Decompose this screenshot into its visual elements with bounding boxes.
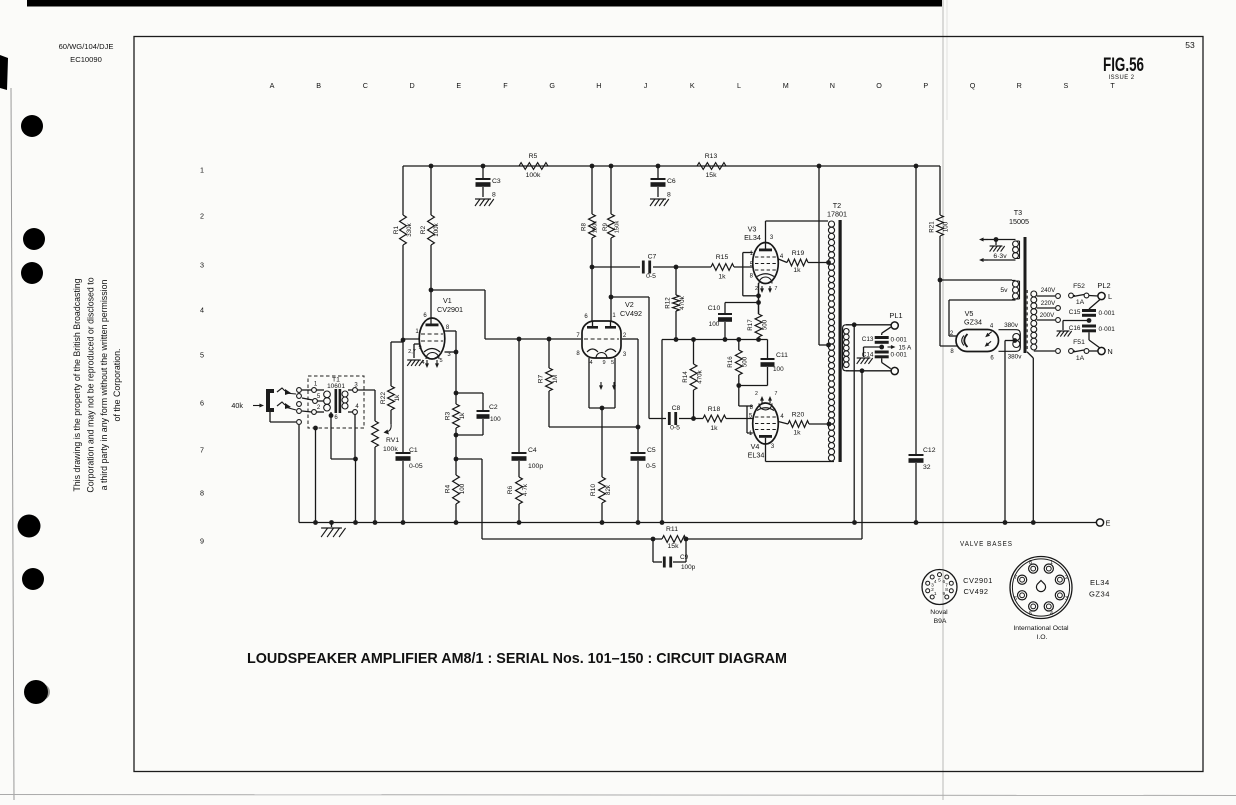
svg-text:C1: C1 [409, 447, 418, 454]
svg-text:C: C [363, 81, 368, 90]
svg-text:R16: R16 [727, 356, 734, 368]
svg-text:32: 32 [923, 464, 931, 471]
svg-text:53: 53 [1185, 40, 1195, 50]
capacitor C3 [481, 164, 486, 169]
resistor R2 [429, 164, 434, 169]
wire V2 cathode bus [549, 426, 638, 428]
svg-text:4: 4 [200, 306, 204, 315]
svg-text:O: O [876, 81, 882, 90]
svg-text:C4: C4 [528, 447, 537, 454]
V3 bracket [743, 252, 753, 254]
svg-text:7: 7 [775, 286, 778, 292]
svg-text:B9A: B9A [934, 618, 947, 625]
svg-text:R21: R21 [929, 221, 936, 233]
svg-text:PL2: PL2 [1097, 281, 1110, 290]
T3 screen earth wire [1027, 352, 1033, 358]
valve V1 [419, 318, 445, 359]
T3 HT centre tap [1012, 338, 1017, 343]
valve V3 [753, 243, 779, 284]
svg-text:200V: 200V [1040, 312, 1055, 319]
T1 pin 1 [312, 388, 317, 393]
resistor R6 [518, 461, 520, 477]
T1 pin 4 [353, 410, 358, 415]
valve V5 [956, 330, 999, 352]
node feedback junction [455, 435, 457, 459]
resistor R20 [778, 422, 788, 425]
svg-text:9: 9 [200, 537, 204, 546]
svg-text:CV2901: CV2901 [437, 305, 463, 314]
svg-text:R13: R13 [705, 153, 718, 160]
svg-text:EC10090: EC10090 [70, 55, 102, 64]
svg-text:150k: 150k [593, 221, 599, 234]
svg-text:C16: C16 [1069, 325, 1081, 332]
svg-text:E: E [456, 81, 461, 90]
svg-text:B: B [316, 81, 321, 90]
feedback line [482, 538, 653, 540]
wire R15 to V3 grid [734, 266, 753, 268]
svg-text:100: 100 [490, 416, 501, 423]
svg-text:470k: 470k [697, 369, 704, 383]
15A arrow label [888, 346, 893, 348]
T1 core [335, 389, 338, 413]
svg-text:240V: 240V [1041, 287, 1056, 294]
svg-text:Corporation and may not be rep: Corporation and may not be reproduced or… [85, 277, 95, 492]
grid bias bus [662, 339, 768, 341]
PL1 earth [864, 346, 882, 348]
svg-text:5: 5 [938, 577, 941, 583]
svg-text:LOUDSPEAKER AMPLIFIER AM8/1: LOUDSPEAKER AMPLIFIER AM8/1 : SERIAL Nos… [247, 651, 787, 667]
svg-text:330k: 330k [406, 222, 413, 236]
scan left edge mark [0, 55, 8, 90]
V4 cathode bracket [746, 406, 748, 433]
V3 heater arrows [761, 286, 763, 290]
svg-text:8: 8 [492, 192, 496, 199]
svg-text:J: J [644, 81, 648, 90]
fuse F52 [1071, 295, 1075, 297]
V2 anode right [605, 326, 616, 329]
V5 diode arrows [987, 332, 991, 336]
svg-text:100p: 100p [681, 564, 696, 571]
wire V2 pin2 down [622, 338, 638, 340]
svg-text:1k: 1k [793, 267, 801, 274]
wire V1 anode to V2 grid [429, 288, 434, 293]
svg-text:L: L [1108, 292, 1112, 301]
resistor R17 [756, 337, 761, 342]
svg-text:6: 6 [200, 399, 204, 408]
node C13 C14 junction [879, 345, 884, 350]
svg-text:100: 100 [943, 221, 950, 232]
node V4 cathode net [736, 383, 741, 388]
RV1 wiper arrow [386, 424, 391, 432]
svg-text:0-5: 0-5 [670, 425, 680, 432]
resistor R11 [662, 536, 686, 543]
T1 primary winding [324, 391, 331, 398]
T1 pin 6 [329, 413, 334, 418]
svg-text:1k: 1k [793, 430, 801, 437]
svg-text:M: M [783, 81, 789, 90]
T1 pin 2 [312, 410, 317, 415]
T1 pin 3 [353, 388, 358, 393]
svg-text:K: K [690, 81, 695, 90]
resistor R10 [599, 477, 606, 503]
svg-text:100k: 100k [433, 222, 440, 236]
svg-text:5: 5 [439, 358, 442, 364]
svg-text:3: 3 [200, 261, 204, 270]
svg-text:6: 6 [1014, 596, 1017, 602]
svg-text:R2: R2 [420, 225, 427, 234]
svg-text:C11: C11 [776, 352, 788, 359]
svg-text:C7: C7 [648, 254, 657, 261]
V4 heater arrows [761, 399, 763, 403]
svg-text:4: 4 [421, 360, 424, 366]
svg-text:GZ34: GZ34 [1089, 590, 1110, 599]
6.3V wires and arrows [984, 239, 1016, 241]
capacitor C6 [656, 164, 661, 169]
wire C8 to R18 [679, 418, 703, 420]
capacitor C10 [723, 337, 728, 342]
V2 anode left [587, 326, 598, 329]
page left edge line [11, 88, 14, 800]
svg-text:15 A: 15 A [899, 345, 913, 352]
svg-text:V2: V2 [625, 300, 634, 309]
valve base International Octal [1010, 557, 1072, 619]
svg-text:6·3v: 6·3v [993, 253, 1007, 260]
jack sleeve wire [269, 412, 271, 422]
svg-text:RV1: RV1 [386, 437, 399, 444]
wire rectifier output [938, 278, 943, 283]
T1 shield ground wire [313, 426, 318, 431]
V5 cathode [964, 334, 967, 347]
wire R18 to V4 grid [726, 418, 753, 420]
svg-text:0·001: 0·001 [1099, 310, 1116, 317]
svg-text:FIG.56: FIG.56 [1103, 55, 1144, 76]
svg-text:R10: R10 [590, 484, 597, 496]
capacitor C12 [914, 164, 919, 169]
svg-text:4: 4 [934, 579, 937, 585]
svg-text:of the Corporation.: of the Corporation. [112, 349, 122, 422]
svg-text:PL1: PL1 [889, 311, 902, 320]
svg-text:7: 7 [1014, 575, 1017, 581]
svg-text:CV492: CV492 [620, 309, 642, 318]
svg-text:A: A [270, 81, 275, 90]
svg-text:2: 2 [755, 286, 758, 292]
svg-text:R: R [1017, 81, 1022, 90]
svg-text:100: 100 [709, 321, 720, 328]
V1 pin 3 wire [445, 351, 457, 353]
svg-text:8: 8 [945, 587, 948, 593]
transformer T1 shield box [308, 376, 364, 428]
svg-text:Q: Q [970, 81, 976, 90]
svg-text:5: 5 [200, 351, 204, 360]
svg-text:V1: V1 [443, 296, 452, 305]
svg-text:P: P [923, 81, 928, 90]
svg-text:5: 5 [611, 360, 614, 366]
svg-text:100k: 100k [383, 446, 398, 453]
svg-text:F: F [503, 81, 508, 90]
svg-text:15k: 15k [706, 172, 718, 179]
hole punch 5 [22, 568, 44, 590]
V4 anode [759, 435, 772, 438]
svg-text:R17: R17 [747, 319, 754, 331]
svg-text:EL34: EL34 [748, 451, 765, 460]
svg-text:150k: 150k [615, 221, 621, 234]
svg-text:VALVE BASES: VALVE BASES [960, 541, 1013, 548]
svg-text:D: D [409, 81, 414, 90]
svg-text:ISSUE 2: ISSUE 2 [1109, 74, 1135, 81]
resistor R15 [711, 264, 734, 271]
T3 screen dashed [1026, 290, 1028, 352]
svg-text:7: 7 [775, 391, 778, 397]
svg-text:0·001: 0·001 [891, 352, 908, 359]
svg-text:R20: R20 [792, 412, 805, 419]
svg-text:380v: 380v [1004, 322, 1019, 329]
V5 filament wires [949, 299, 1016, 301]
svg-text:a third party in any form with: a third party in any form without the wr… [99, 280, 109, 491]
wire V2 pin1 to C8 [609, 295, 614, 300]
scan top black bar [27, 0, 942, 7]
resistor R7 [547, 337, 552, 342]
hole punch 3 [21, 262, 43, 284]
V3 anode [759, 249, 772, 252]
capacitor C15 [1089, 300, 1100, 310]
resistor R19 [778, 259, 787, 263]
svg-text:470k: 470k [679, 295, 686, 309]
svg-text:3: 3 [1065, 596, 1068, 602]
svg-text:R11: R11 [666, 526, 678, 533]
page bottom edge line [0, 795, 1236, 796]
V3 grids dashes [755, 256, 776, 258]
svg-text:10601: 10601 [327, 383, 345, 390]
T2 core [839, 220, 842, 462]
svg-text:15k: 15k [668, 543, 680, 550]
wire V3 anode to T2 top [765, 221, 767, 243]
capacitor C8 [668, 412, 671, 425]
svg-text:C13: C13 [862, 336, 874, 343]
wire V2 grid line [485, 338, 581, 340]
PL2 earth [1063, 320, 1089, 322]
svg-text:0·001: 0·001 [891, 337, 908, 344]
svg-text:60/WG/104/DJE: 60/WG/104/DJE [59, 42, 114, 51]
hole punch 6 [34, 684, 50, 700]
svg-text:40k: 40k [231, 401, 243, 410]
svg-text:9: 9 [943, 591, 946, 597]
svg-text:220V: 220V [1041, 300, 1056, 307]
resistor R21 [939, 166, 941, 215]
feedback takeoff wire [861, 371, 863, 539]
border frame [134, 37, 1203, 772]
V1 anode [426, 324, 439, 327]
wire HT top rail [403, 165, 940, 167]
svg-text:100: 100 [459, 483, 466, 494]
hole punch 1 [21, 115, 43, 137]
svg-text:I.O.: I.O. [1037, 634, 1048, 641]
svg-text:5v: 5v [1000, 287, 1008, 294]
svg-text:E: E [1106, 519, 1111, 528]
svg-text:R19: R19 [792, 250, 805, 257]
V1 grid dashes [421, 333, 443, 335]
node V1 cathode [454, 391, 459, 396]
svg-text:C6: C6 [667, 178, 676, 185]
capacitor C11 [767, 340, 769, 359]
terminal E [1096, 519, 1103, 526]
resistor R3 [455, 393, 457, 404]
svg-text:R14: R14 [682, 371, 689, 383]
svg-text:T: T [1110, 81, 1115, 90]
T2 B+ centre tap wire [817, 164, 822, 169]
resistor R14 [691, 337, 696, 342]
svg-text:R15: R15 [716, 254, 729, 261]
valve V4 [753, 403, 779, 444]
svg-text:R5: R5 [529, 153, 538, 160]
capacitor C5 [637, 427, 639, 452]
V2 grid dashes [584, 338, 619, 340]
svg-text:C5: C5 [647, 447, 656, 454]
svg-text:C3: C3 [492, 178, 501, 185]
V2 cathode arcs [587, 349, 598, 352]
svg-text:17801: 17801 [827, 210, 847, 219]
V1 grid wire pin 1 [403, 338, 420, 340]
svg-text:1: 1 [1050, 560, 1053, 566]
earth bottom rail [299, 522, 1096, 524]
capacitor C16 [1082, 325, 1096, 328]
svg-text:R18: R18 [708, 406, 721, 413]
V2 heater arrows [600, 382, 602, 387]
svg-text:1A: 1A [1076, 299, 1085, 306]
svg-text:2: 2 [755, 391, 758, 397]
svg-text:CV492: CV492 [963, 587, 988, 596]
capacitor C2 [456, 392, 483, 394]
svg-text:2,7: 2,7 [408, 349, 416, 355]
svg-text:4·7k: 4·7k [522, 483, 529, 496]
hole punch 2 [23, 228, 45, 250]
svg-text:F51: F51 [1073, 339, 1085, 346]
wire V4 anode to T2 bottom [765, 444, 767, 462]
svg-text:15005: 15005 [1009, 217, 1029, 226]
valve V2 [582, 321, 621, 358]
svg-text:R9: R9 [602, 222, 609, 230]
T3 5V winding [1013, 281, 1019, 287]
svg-text:1k: 1k [394, 394, 401, 401]
resistor R8 [590, 164, 595, 169]
T1 pin4 wire down [354, 414, 356, 459]
T2 secondary winding [844, 329, 850, 335]
capacitor C4 [517, 337, 522, 342]
svg-text:1M: 1M [552, 375, 559, 384]
capacitor C9 [652, 539, 654, 562]
svg-text:L: L [737, 81, 741, 90]
svg-text:1k: 1k [718, 274, 726, 281]
V1 cathode arc [424, 349, 440, 353]
T1 pin 5 [313, 399, 318, 404]
svg-text:EL34: EL34 [1090, 578, 1110, 587]
V3 cathode wire down [758, 284, 760, 315]
input jack [266, 389, 274, 412]
wire V2 cathode down [601, 408, 603, 477]
potentiometer RV1 [372, 421, 379, 447]
fuse F51 [1071, 350, 1075, 352]
hole punch 4 [18, 515, 41, 538]
svg-text:C2: C2 [489, 404, 498, 411]
svg-text:International Octal: International Octal [1013, 625, 1069, 632]
V1 pin 8 wire [445, 330, 457, 332]
svg-text:1A: 1A [1076, 355, 1085, 362]
svg-text:This drawing is the property o: This drawing is the property of the Brit… [72, 278, 82, 491]
svg-text:9: 9 [418, 345, 421, 351]
svg-text:CV2901: CV2901 [963, 576, 993, 585]
svg-text:GZ34: GZ34 [964, 318, 982, 327]
svg-text:R1: R1 [393, 225, 400, 234]
node V1 grid [401, 338, 406, 343]
resistor R22 [390, 410, 392, 424]
resistor R4 [455, 459, 457, 475]
svg-text:2: 2 [200, 212, 204, 221]
fold line vertical [942, 0, 944, 800]
svg-text:R22: R22 [380, 392, 387, 404]
svg-text:N: N [1107, 347, 1112, 356]
resistor R12 [675, 267, 677, 295]
svg-text:82k: 82k [605, 484, 612, 495]
T3 6.3V winding [1013, 241, 1019, 247]
resistor R16 [736, 337, 741, 342]
svg-text:1: 1 [200, 166, 204, 175]
resistor R1 [402, 166, 404, 215]
svg-text:0-5: 0-5 [646, 273, 656, 280]
V1 heater arrows [426, 360, 428, 365]
T2 primary winding [828, 221, 834, 227]
svg-text:R12: R12 [665, 297, 672, 309]
svg-text:500: 500 [762, 319, 769, 330]
svg-text:T3: T3 [1014, 208, 1022, 217]
svg-text:R6: R6 [507, 485, 514, 494]
svg-text:R4: R4 [445, 484, 452, 493]
svg-text:0-5: 0-5 [646, 463, 656, 470]
T3 HT winding [1013, 334, 1020, 341]
resistor R9 [609, 164, 614, 169]
V3 cathode arc [757, 274, 774, 277]
svg-text:1k: 1k [459, 412, 466, 419]
svg-text:100: 100 [773, 366, 784, 373]
resistor R18 [703, 415, 726, 422]
svg-text:R7: R7 [538, 374, 545, 383]
svg-text:2: 2 [1065, 575, 1068, 581]
octal keyway [1036, 581, 1045, 592]
wire T1 pin3 to RV1 [357, 389, 375, 391]
svg-text:H: H [596, 81, 601, 90]
svg-text:8: 8 [667, 192, 671, 199]
T3 primary taps [1037, 295, 1055, 297]
capacitor C14 [875, 351, 889, 354]
svg-text:9: 9 [602, 360, 605, 366]
svg-text:C9: C9 [680, 554, 689, 561]
svg-text:1: 1 [934, 591, 937, 597]
svg-text:0·001: 0·001 [1099, 326, 1116, 333]
svg-text:Noval: Noval [930, 609, 948, 616]
chassis ground symbol [331, 523, 333, 528]
svg-text:S: S [1064, 81, 1069, 90]
T2 secondary bottom wire [846, 370, 891, 372]
T2 secondary top wire to PL1 [852, 322, 857, 327]
bus ground wire [661, 340, 663, 523]
svg-text:G: G [549, 81, 555, 90]
T1 secondary winding [342, 391, 348, 397]
svg-text:R3: R3 [445, 411, 452, 420]
svg-text:100k: 100k [526, 172, 541, 179]
wire feedback to bottom [456, 458, 482, 460]
capacitor C13 [881, 333, 883, 335]
svg-text:380v: 380v [1008, 354, 1023, 361]
valve base Noval B9A [922, 570, 957, 605]
node C15 C16 [1087, 318, 1092, 323]
